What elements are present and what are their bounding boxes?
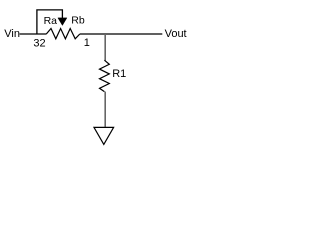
potentiometer wiper arrow <box>58 18 67 26</box>
wire R1 bottom to ground <box>104 92 106 127</box>
potentiometer body Ra/Rb (zigzag) <box>46 29 80 39</box>
svg-text:Ra: Ra <box>44 15 58 27</box>
ground <box>94 127 114 144</box>
wire potentiometer right terminal to Vout <box>80 33 163 35</box>
svg-text:Vout: Vout <box>165 28 187 40</box>
svg-text:Vin: Vin <box>4 28 20 40</box>
resistor R1 (vertical zigzag) <box>100 60 110 91</box>
wire Vin to potentiometer left terminal <box>20 33 47 35</box>
wire junction down to R1 top <box>104 34 106 60</box>
svg-text:1: 1 <box>84 37 90 49</box>
wire rheostat loop from left terminal up and over to wiper <box>37 10 63 34</box>
svg-text:32: 32 <box>33 37 45 49</box>
svg-text:R1: R1 <box>112 68 126 80</box>
svg-text:Rb: Rb <box>71 14 85 26</box>
